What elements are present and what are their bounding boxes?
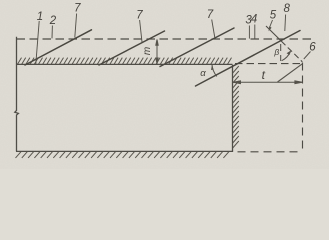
svg-text:4: 4 [251, 14, 257, 26]
svg-text:2: 2 [49, 15, 57, 27]
svg-text:1: 1 [37, 11, 43, 23]
svg-text:8: 8 [283, 3, 290, 15]
svg-text:m: m [142, 47, 153, 55]
svg-text:α: α [200, 68, 206, 79]
svg-text:6: 6 [309, 42, 316, 54]
svg-text:5: 5 [270, 10, 277, 22]
svg-text:β: β [273, 47, 279, 57]
svg-text:7: 7 [207, 9, 214, 21]
svg-text:7: 7 [74, 3, 81, 15]
svg-text:7: 7 [136, 10, 143, 22]
